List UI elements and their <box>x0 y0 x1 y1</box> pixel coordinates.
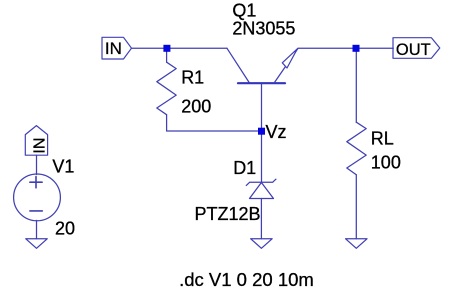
svg-text:2N3055: 2N3055 <box>232 19 295 39</box>
svg-text:R1: R1 <box>181 68 204 88</box>
svg-text:.dc V1 0 20 10m: .dc V1 0 20 10m <box>179 269 314 290</box>
junction node OUT/RL/emitter <box>353 45 360 52</box>
svg-text:Vz: Vz <box>266 122 287 142</box>
net flag IN (on V1, pointing up) <box>25 126 47 156</box>
ground (below V1) <box>26 239 47 249</box>
wire RL to ground <box>355 175 357 239</box>
wire junction to collector bend <box>167 47 227 49</box>
wire OUT junction down to RL <box>355 48 357 122</box>
wire R1 bottom to Vz node <box>167 115 262 131</box>
svg-text:IN: IN <box>105 39 122 58</box>
svg-text:D1: D1 <box>233 158 256 178</box>
wire D1 to ground <box>260 199 262 239</box>
junction node Vz <box>258 128 265 135</box>
net flag OUT <box>393 38 440 59</box>
resistor RL <box>347 122 366 175</box>
wire OUT junction to OUT flag <box>356 47 393 49</box>
ground (below D1) <box>251 239 272 249</box>
resistor R1 <box>157 62 176 114</box>
svg-text:Q1: Q1 <box>232 0 256 20</box>
svg-text:20: 20 <box>55 219 75 239</box>
svg-text:200: 200 <box>181 97 211 117</box>
net flag IN (top left) <box>102 37 132 59</box>
ground (below RL) <box>346 239 367 249</box>
svg-text:PTZ12B: PTZ12B <box>195 204 261 224</box>
wire emitter to OUT junction <box>298 47 356 49</box>
wire base pin Q1 to Vz <box>261 84 263 131</box>
wire IN flag to junction <box>132 47 168 49</box>
wire flag to V1 <box>36 155 38 174</box>
svg-text:IN: IN <box>31 138 48 154</box>
wire V1 to ground <box>36 220 38 238</box>
svg-text:100: 100 <box>371 152 401 172</box>
diode D1 (zener) <box>246 179 276 198</box>
svg-text:RL: RL <box>371 129 394 149</box>
wire Vz down to D1 <box>261 131 263 182</box>
junction node IN/R1/collector <box>163 45 170 52</box>
svg-text:OUT: OUT <box>396 41 431 59</box>
wire junction down to R1 <box>166 48 168 62</box>
transistor Q1 <box>227 48 298 83</box>
svg-text:V1: V1 <box>52 157 74 177</box>
voltage source V1 <box>14 174 61 221</box>
